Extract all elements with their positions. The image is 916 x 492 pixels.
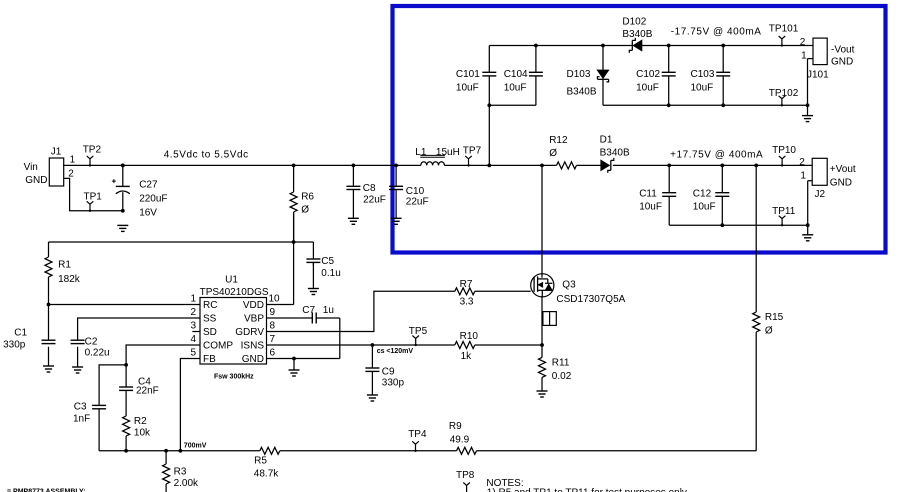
svg-text:10uF: 10uF [636, 83, 659, 94]
ground (C1) [43, 366, 54, 372]
svg-text:+Vout: +Vout [830, 164, 856, 175]
svg-text:1u: 1u [323, 305, 334, 316]
svg-text:1k: 1k [461, 351, 473, 362]
svg-text:10: 10 [269, 294, 281, 305]
test point TP11 [772, 206, 796, 226]
svg-text:10uF: 10uF [456, 83, 479, 94]
label +17.75V @ 400mA [670, 149, 763, 160]
capacitor C2 [71, 336, 110, 367]
ground (C5) [308, 289, 319, 295]
resistor R5 [254, 447, 280, 479]
svg-text:TP11: TP11 [772, 206, 796, 217]
svg-text:1: 1 [70, 154, 76, 165]
ground (C9) [367, 395, 378, 401]
wire J1 pin2 to TP1/C27 bottom [64, 178, 123, 210]
assembly text [7, 489, 86, 492]
resistor R12 [549, 135, 576, 169]
wire +V ground rail [669, 224, 808, 226]
svg-text:R5: R5 [254, 456, 267, 467]
capacitor C7 [267, 305, 340, 358]
pin stub SD (pin 3) [192, 331, 200, 333]
resistor R1 [45, 242, 81, 340]
svg-text:2: 2 [800, 37, 806, 48]
capacitor C102 [636, 46, 676, 106]
junction dots (-V top rail) [534, 44, 725, 48]
resistor R7 [455, 279, 531, 307]
svg-text:0.22u: 0.22u [85, 347, 110, 358]
capacitor C10 [389, 165, 428, 218]
junction dot (COMP node) [124, 363, 128, 367]
diode D1 B340B [600, 135, 630, 173]
svg-text:COMP: COMP [203, 341, 233, 352]
svg-text:C102: C102 [636, 69, 660, 80]
svg-text:5: 5 [190, 348, 196, 359]
svg-text:48.7k: 48.7k [254, 469, 279, 480]
junction dots (feedback rail) [124, 449, 182, 453]
ground (C27) [117, 225, 128, 231]
svg-text:TP4: TP4 [408, 429, 427, 440]
svg-text:3.3: 3.3 [460, 297, 474, 308]
wire -V bottom rail A [489, 104, 536, 106]
capacitor C5 [306, 256, 340, 288]
ground (C8) [348, 218, 359, 224]
svg-text:D1: D1 [600, 135, 613, 146]
svg-text:10uF: 10uF [639, 202, 662, 213]
junction dots (-V bottom rails) [487, 103, 809, 107]
svg-text:SS: SS [203, 314, 217, 325]
wire -V top rail [489, 45, 813, 47]
svg-text:8: 8 [270, 321, 276, 332]
svg-text:330p: 330p [382, 378, 405, 389]
svg-text:C103: C103 [691, 69, 715, 80]
wire C101 branch down to switch rail [488, 105, 490, 165]
svg-text:FB: FB [203, 354, 216, 365]
svg-text:R6: R6 [301, 191, 314, 202]
svg-text:0.1u: 0.1u [321, 268, 340, 279]
svg-text:1: 1 [190, 294, 196, 305]
svg-text:TP7: TP7 [463, 146, 482, 157]
svg-text:15uH: 15uH [436, 147, 460, 158]
svg-text:700mV: 700mV [184, 443, 207, 450]
svg-text:1) R5 and TP1 to TP11 for test: 1) R5 and TP1 to TP11 for test purposes … [487, 488, 687, 492]
resistor R2 [123, 416, 151, 451]
svg-text:Fsw 300kHz: Fsw 300kHz [214, 374, 254, 381]
wire RC (U1 pin1 to R1) [49, 304, 201, 306]
svg-text:C11: C11 [639, 188, 657, 199]
svg-text:GND: GND [830, 177, 852, 188]
ground (J101) [802, 105, 813, 121]
wire U1 VDD pin to branch [267, 242, 294, 305]
svg-text:182k: 182k [58, 274, 81, 285]
svg-text:C7: C7 [302, 305, 315, 316]
svg-text:C2: C2 [85, 336, 98, 347]
svg-text:B340B: B340B [567, 87, 597, 98]
svg-text:C1: C1 [14, 327, 27, 338]
wire feedback rail (700mV) [99, 450, 756, 452]
ground (R11) [537, 391, 548, 397]
svg-text:R2: R2 [134, 416, 147, 427]
junction dot (VDD/R6/C5) [292, 240, 296, 244]
svg-text:1: 1 [801, 51, 807, 62]
wire Vin rail (J1 pin1 to L1) [63, 164, 421, 166]
note text [486, 478, 687, 492]
svg-text:L1: L1 [415, 147, 427, 158]
svg-text:Q3: Q3 [562, 280, 576, 291]
inductor L1 [415, 147, 460, 166]
capacitor C4 [119, 365, 159, 416]
ground (J2) [802, 225, 813, 241]
svg-text:220uF: 220uF [139, 193, 167, 204]
svg-text:R7: R7 [460, 279, 473, 290]
resistor R15 [753, 165, 784, 450]
highlight box (blue) [393, 6, 886, 253]
ground (U1 GND) [289, 357, 300, 376]
label Fsw 300kHz [214, 374, 254, 381]
svg-text:10k: 10k [134, 427, 151, 438]
svg-text:22uF: 22uF [406, 197, 429, 208]
test point TP10 [772, 145, 796, 167]
svg-text:J101: J101 [807, 70, 829, 81]
svg-text:GND: GND [831, 57, 853, 68]
capacitor C104 [504, 46, 543, 106]
connector J1 [24, 147, 76, 187]
svg-text:Ø: Ø [301, 205, 309, 216]
svg-text:RC: RC [203, 300, 217, 311]
IC U1 TPS40210DGS [190, 275, 280, 365]
svg-text:= PMP8773 ASSEMBLY:: = PMP8773 ASSEMBLY: [7, 489, 86, 492]
svg-text:330p: 330p [3, 340, 26, 351]
svg-text:VDD: VDD [243, 300, 264, 311]
svg-text:D102: D102 [622, 17, 646, 28]
svg-text:+17.75V @ 400mA: +17.75V @ 400mA [670, 149, 763, 160]
svg-text:9: 9 [270, 307, 276, 318]
svg-text:1nF: 1nF [73, 413, 90, 424]
test point TP102 [769, 88, 799, 107]
connector J101 [800, 37, 855, 105]
svg-text:R10: R10 [460, 331, 479, 342]
junction dots (Vin rail) [292, 164, 398, 168]
svg-text:U1: U1 [225, 275, 238, 286]
svg-text:TP101: TP101 [769, 24, 799, 35]
resistor R3 [163, 451, 199, 492]
test point TP2 [83, 144, 102, 166]
capacitor C27 [112, 165, 168, 218]
label 700mV [184, 443, 207, 450]
test point TP8 [456, 470, 475, 492]
junction dot (RC/R1) [47, 303, 51, 307]
resistor R6 [290, 165, 314, 242]
svg-text:C3: C3 [74, 402, 87, 413]
capacitor C8 [346, 165, 385, 218]
svg-text:J1: J1 [51, 147, 62, 158]
svg-text:C8: C8 [363, 183, 376, 194]
test point TP101 [769, 24, 799, 47]
wire U1 GND pin [267, 358, 340, 360]
junction dots (+V gnd rail) [720, 223, 809, 227]
svg-text:Vin: Vin [24, 162, 38, 173]
svg-text:1: 1 [800, 171, 806, 182]
svg-text:TPS40210DGS: TPS40210DGS [200, 287, 269, 298]
wire switch rail (L1 to J2) [444, 164, 812, 166]
svg-text:R9: R9 [449, 421, 462, 432]
svg-text:0.02: 0.02 [552, 371, 572, 382]
capacitor C12 [693, 165, 730, 225]
svg-text:C9: C9 [382, 366, 395, 377]
junction dots (+V rail) [667, 164, 758, 168]
svg-text:CSD17307Q5A: CSD17307Q5A [556, 294, 625, 305]
ground (C2) [72, 367, 83, 373]
svg-text:TP102: TP102 [769, 88, 799, 99]
ground (C10) [391, 218, 402, 224]
capacitor C9 [365, 343, 404, 395]
svg-text:16V: 16V [139, 208, 157, 219]
wire Q3 source to R11 [541, 297, 543, 345]
svg-text:-Vout: -Vout [831, 44, 855, 55]
svg-text:C12: C12 [693, 188, 712, 199]
svg-text:10uF: 10uF [504, 83, 527, 94]
svg-text:3: 3 [190, 321, 196, 332]
svg-text:Ø: Ø [765, 326, 773, 337]
svg-text:10uF: 10uF [691, 83, 714, 94]
transistor Q3 CSD17307Q5A [531, 165, 626, 305]
wire GDRV (U1 pin8 to R7) [267, 291, 455, 331]
svg-text:cs <120mV: cs <120mV [377, 348, 414, 355]
svg-text:C104: C104 [504, 69, 528, 80]
resistor R9 [449, 421, 477, 454]
svg-text:2: 2 [799, 157, 805, 168]
svg-text:J2: J2 [815, 189, 826, 200]
svg-text:2.00k: 2.00k [174, 478, 199, 489]
svg-text:GND: GND [25, 175, 47, 186]
junction dots (switch rail) [121, 164, 544, 168]
svg-text:TP5: TP5 [409, 326, 428, 337]
svg-text:49.9: 49.9 [450, 435, 470, 446]
junction dot (Q3 source/R10/R11) [540, 343, 544, 347]
svg-text:4.5Vdc to 5.5Vdc: 4.5Vdc to 5.5Vdc [164, 150, 249, 161]
resistor R11 [539, 345, 572, 391]
svg-text:22nF: 22nF [136, 386, 159, 397]
svg-text:VBP: VBP [244, 314, 264, 325]
resistor R10 [455, 331, 479, 362]
label -17.75V @ 400mA [671, 26, 762, 37]
svg-text:R1: R1 [58, 260, 71, 271]
wire VDD branch [49, 212, 314, 259]
capacitor C11 [639, 165, 676, 225]
svg-text:SD: SD [203, 327, 217, 338]
test point TP1 [84, 192, 103, 213]
svg-text:C27: C27 [139, 180, 158, 191]
svg-text:B340B: B340B [622, 29, 652, 40]
svg-text:2: 2 [190, 307, 196, 318]
capacitor C103 [691, 46, 731, 106]
connector J2 [799, 157, 856, 225]
label cs <120mV [377, 348, 414, 355]
svg-text:2: 2 [68, 168, 74, 179]
svg-text:D103: D103 [567, 69, 591, 80]
svg-text:GND: GND [242, 354, 264, 365]
svg-text:C5: C5 [321, 256, 334, 267]
svg-text:6: 6 [270, 348, 276, 359]
diode D103 B340B [567, 46, 609, 106]
svg-text:R12: R12 [549, 135, 568, 146]
svg-text:B340B: B340B [600, 148, 630, 159]
wire -V bottom rail B [603, 104, 808, 106]
junction dots (C27/TP1 net) [121, 164, 125, 213]
svg-text:7: 7 [270, 334, 276, 345]
diode D102 B340B [622, 17, 652, 53]
svg-text:TP10: TP10 [772, 145, 796, 156]
wire ISNS (U1 pin7) [267, 344, 543, 346]
test point TP4 [408, 429, 427, 452]
svg-text:R15: R15 [765, 312, 784, 323]
label 4.5Vdc to 5.5Vdc [164, 150, 249, 161]
svg-text:C101: C101 [456, 69, 480, 80]
wire FB (U1 pin5 down) [180, 359, 200, 451]
test point TP5 [409, 326, 428, 346]
svg-text:ISNS: ISNS [241, 341, 265, 352]
svg-text:TP8: TP8 [456, 470, 475, 481]
wire COMP (U1 pin4) [126, 345, 200, 365]
package pad symbol (Q3) [543, 312, 556, 326]
svg-text:GDRV: GDRV [235, 327, 264, 338]
svg-text:4: 4 [190, 334, 196, 345]
svg-text:TP1: TP1 [84, 192, 103, 203]
svg-text:-17.75V @ 400mA: -17.75V @ 400mA [671, 26, 762, 37]
svg-text:R3: R3 [174, 466, 187, 477]
svg-text:10uF: 10uF [693, 202, 716, 213]
capacitor C101 [456, 46, 496, 106]
capacitor C3 [73, 365, 126, 451]
svg-text:22uF: 22uF [363, 194, 386, 205]
svg-text:C10: C10 [406, 186, 425, 197]
svg-text:Ø: Ø [549, 148, 557, 159]
svg-text:R11: R11 [552, 358, 570, 369]
capacitor C1 [3, 327, 55, 366]
wire SS (U1 pin2 to C2) [78, 318, 200, 340]
svg-text:TP2: TP2 [83, 144, 102, 155]
test point TP7 [463, 146, 482, 167]
